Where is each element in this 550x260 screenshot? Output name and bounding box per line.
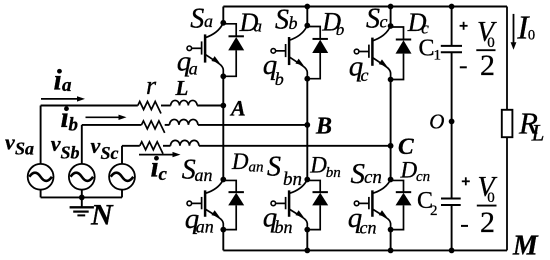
- svg-text:b: b: [275, 69, 284, 89]
- svg-text:S: S: [267, 151, 281, 182]
- svg-text:bn: bn: [283, 169, 302, 190]
- svg-text:L: L: [175, 76, 189, 100]
- svg-text:S: S: [366, 3, 380, 34]
- svg-text:2: 2: [480, 49, 495, 82]
- svg-text:O: O: [429, 110, 444, 134]
- svg-text:D: D: [309, 153, 327, 178]
- svg-text:a: a: [62, 75, 72, 96]
- svg-text:2: 2: [480, 206, 495, 239]
- svg-text:Sb: Sb: [61, 142, 80, 162]
- svg-text:a: a: [189, 59, 198, 79]
- svg-text:b: b: [336, 20, 345, 39]
- svg-text:D: D: [231, 149, 249, 174]
- svg-text:S: S: [190, 3, 204, 34]
- svg-text:b: b: [289, 13, 298, 33]
- svg-text:N: N: [90, 199, 114, 232]
- svg-text:v: v: [5, 129, 15, 154]
- svg-text:an: an: [195, 165, 213, 185]
- svg-text:B: B: [315, 114, 332, 140]
- svg-text:Sc: Sc: [101, 143, 119, 163]
- svg-text:1: 1: [434, 47, 442, 63]
- svg-text:a: a: [254, 16, 263, 35]
- svg-text:L: L: [531, 121, 545, 146]
- svg-text:an: an: [196, 217, 214, 237]
- svg-text:0: 0: [487, 190, 495, 206]
- svg-text:cn: cn: [416, 169, 430, 185]
- svg-text:c: c: [361, 65, 369, 85]
- svg-text:A: A: [229, 96, 246, 121]
- svg-text:c: c: [380, 12, 388, 32]
- svg-text:cn: cn: [364, 167, 382, 188]
- svg-text:D: D: [400, 158, 418, 183]
- svg-text:b: b: [69, 114, 79, 135]
- svg-text:c: c: [159, 164, 168, 185]
- svg-text:v: v: [91, 133, 101, 158]
- svg-text:cn: cn: [360, 218, 377, 238]
- svg-text:bn: bn: [275, 217, 293, 237]
- svg-text:bn: bn: [326, 165, 341, 181]
- svg-text:S: S: [275, 5, 289, 36]
- svg-text:v: v: [51, 131, 61, 156]
- svg-text:C: C: [419, 36, 435, 62]
- svg-text:M: M: [512, 231, 539, 260]
- svg-text:r: r: [146, 71, 157, 100]
- svg-text:C: C: [398, 134, 414, 160]
- svg-text:2: 2: [430, 203, 438, 219]
- svg-text:an: an: [249, 159, 264, 175]
- svg-text:0: 0: [528, 28, 535, 44]
- svg-text:a: a: [204, 11, 213, 31]
- svg-text:Sa: Sa: [15, 138, 34, 158]
